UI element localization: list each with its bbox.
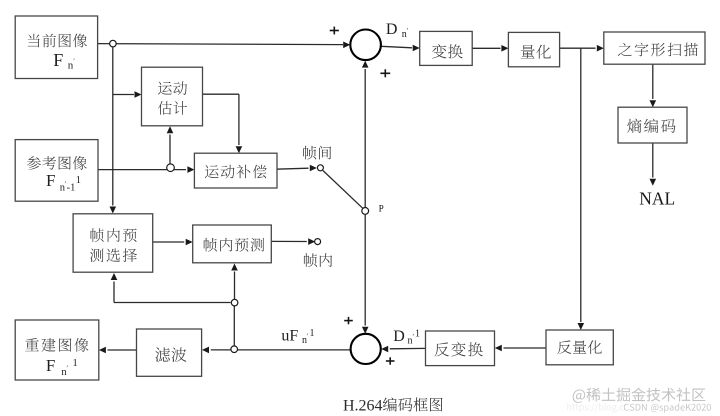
label NAL bbox=[639, 189, 675, 209]
watermark csdn faint bbox=[567, 403, 623, 412]
wire inv quant to inv transform bbox=[495, 345, 546, 352]
block entropy coding bbox=[618, 107, 687, 143]
svg-text:D: D bbox=[386, 21, 398, 38]
caption H.264 bbox=[343, 397, 443, 414]
wire inv transform to summing node 2 bbox=[381, 346, 425, 353]
wire node D to intra branch bbox=[111, 273, 231, 303]
wire zigzag to entropy bbox=[650, 64, 657, 107]
svg-text:H.264: H.264 bbox=[343, 398, 383, 415]
inter switch contact bbox=[317, 165, 323, 171]
switch pole P bbox=[362, 208, 369, 215]
block transform bbox=[420, 31, 473, 65]
svg-text:F: F bbox=[53, 50, 63, 70]
wire node A down to intra choose bbox=[110, 47, 117, 213]
wire intra choose to intra pred bbox=[153, 239, 193, 246]
wire transform to quant bbox=[472, 45, 508, 52]
svg-text:uF: uF bbox=[281, 328, 298, 345]
block reference image Fn-1 bbox=[15, 140, 98, 202]
wire node B up to motion est bbox=[167, 126, 174, 164]
svg-text:′: ′ bbox=[407, 27, 409, 35]
block recon image bbox=[15, 320, 99, 380]
wire quant branch down to inv quant bbox=[578, 48, 585, 330]
summing node S2 bbox=[351, 334, 381, 364]
block current image Fn bbox=[15, 16, 97, 79]
block inverse quant bbox=[546, 330, 613, 365]
wire ref image to motion comp bbox=[98, 166, 194, 173]
block filter bbox=[137, 329, 202, 376]
svg-text:-1: -1 bbox=[67, 183, 76, 194]
watermark csdn bbox=[624, 403, 711, 412]
watermark juejin bbox=[573, 388, 706, 403]
junction node A bbox=[110, 40, 117, 47]
block intra prediction bbox=[193, 225, 272, 263]
label P bbox=[379, 203, 384, 213]
svg-text:D: D bbox=[393, 328, 405, 345]
wire node A to motion estimation bbox=[113, 91, 142, 98]
wire node D up to intra pred bbox=[231, 264, 238, 300]
svg-text:1: 1 bbox=[76, 175, 81, 186]
label intra bbox=[304, 253, 332, 267]
junction node C bbox=[231, 346, 238, 353]
label plus S1 bottom bbox=[380, 69, 390, 77]
wire uFn to filter bbox=[202, 347, 350, 354]
wire filter to recon image bbox=[99, 347, 137, 354]
svg-text:P: P bbox=[379, 203, 384, 213]
label plus S2 bottom bbox=[386, 357, 395, 364]
block inverse transform bbox=[426, 331, 495, 366]
svg-text:NAL: NAL bbox=[639, 189, 675, 209]
wire intra pred to intra contact bbox=[271, 238, 315, 245]
switch arm P bbox=[323, 171, 363, 209]
block motion estimation bbox=[142, 67, 203, 126]
svg-text:1: 1 bbox=[415, 329, 420, 340]
summing node S1 bbox=[350, 30, 381, 61]
label plus S2 left bbox=[344, 317, 353, 324]
wire quant to zigzag bbox=[560, 45, 604, 52]
wire motion comp to inter contact bbox=[276, 165, 317, 172]
svg-text:F: F bbox=[46, 171, 55, 190]
label plus S1 left bbox=[330, 27, 339, 35]
label inter bbox=[303, 146, 331, 160]
label uFn bbox=[281, 328, 314, 346]
intra switch contact bbox=[315, 239, 321, 245]
label Dn residual bbox=[386, 21, 409, 40]
block zigzag scan bbox=[604, 32, 705, 64]
wire motion est to motion comp bbox=[203, 94, 243, 153]
wire P down to summing node 2 bbox=[362, 215, 369, 334]
label Dn2 bbox=[393, 328, 420, 346]
wire sum to transform bbox=[381, 45, 420, 52]
svg-text:1: 1 bbox=[310, 328, 315, 339]
junction node B bbox=[167, 164, 175, 172]
block motion compensation bbox=[194, 153, 277, 188]
wire node C up to node D bbox=[233, 306, 235, 346]
svg-text:F: F bbox=[46, 356, 55, 375]
wire entropy to NAL bbox=[650, 143, 657, 186]
block intra choose bbox=[73, 214, 153, 272]
svg-text:1: 1 bbox=[73, 358, 78, 369]
junction node D bbox=[231, 299, 238, 306]
wire P up to summing node bbox=[362, 61, 369, 208]
block quantization bbox=[508, 32, 559, 66]
wire Fn to summing node bbox=[98, 42, 351, 49]
